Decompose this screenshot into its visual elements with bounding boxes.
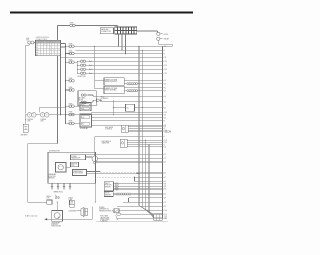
- svg-text:W1: W1: [36, 44, 38, 46]
- svg-text:105: 105: [164, 112, 167, 114]
- svg-text:29: 29: [164, 197, 166, 199]
- svg-text:21: 21: [164, 154, 166, 156]
- svg-text:44: 44: [164, 102, 166, 104]
- svg-text:9: 9: [164, 54, 165, 56]
- svg-text:FUSE: FUSE: [69, 121, 73, 123]
- svg-text:43: 43: [164, 46, 166, 48]
- svg-text:35: 35: [164, 206, 166, 208]
- svg-text:RLY: RLY: [82, 124, 85, 126]
- svg-text:34: 34: [164, 189, 166, 191]
- svg-text:11: 11: [164, 158, 166, 160]
- svg-text:IGN: IGN: [82, 105, 84, 107]
- svg-text:FUSE: FUSE: [69, 87, 73, 89]
- svg-text:ECCS: ECCS: [164, 34, 168, 36]
- svg-text:PRESSURE SWITCH: PRESSURE SWITCH: [99, 210, 113, 212]
- svg-text:49: 49: [164, 115, 166, 117]
- svg-text:4: 4: [164, 120, 165, 122]
- svg-text:FUSE: FUSE: [69, 78, 73, 80]
- svg-text:(FUEL PUMP): (FUEL PUMP): [100, 219, 110, 221]
- svg-text:41: 41: [164, 181, 166, 183]
- svg-text:20: 20: [164, 162, 166, 164]
- svg-text:FUSE: FUSE: [69, 59, 73, 61]
- svg-text:STEERING OIL: STEERING OIL: [99, 209, 109, 211]
- svg-text:No.1: No.1: [89, 61, 92, 63]
- svg-text:No.3: No.3: [89, 69, 92, 71]
- svg-text:POSITION: POSITION: [49, 176, 56, 178]
- svg-text:POSITION SEN: POSITION SEN: [73, 173, 83, 175]
- svg-text:47: 47: [164, 177, 166, 179]
- svg-text:CONDENSER: CONDENSER: [68, 211, 76, 213]
- svg-text:R: R: [49, 42, 50, 44]
- svg-text:F22: F22: [165, 216, 168, 218]
- svg-text:FUSE: FUSE: [70, 23, 74, 25]
- svg-text:SOLENOID: SOLENOID: [101, 98, 108, 100]
- svg-text:W2: W2: [36, 47, 38, 49]
- svg-text:T: T: [55, 42, 56, 44]
- svg-text:CONN.: CONN.: [68, 199, 73, 201]
- svg-text:45: 45: [164, 107, 166, 109]
- svg-text:SENSOR: SENSOR: [105, 186, 111, 188]
- svg-text:SENSOR (FRONT): SENSOR (FRONT): [105, 81, 118, 83]
- svg-text:1: 1: [164, 136, 165, 138]
- svg-text:W3: W3: [36, 49, 38, 51]
- svg-text:23: 23: [164, 194, 166, 196]
- svg-text:FICD: FICD: [101, 96, 104, 98]
- svg-text:101: 101: [164, 61, 167, 63]
- svg-text:POSITION: POSITION: [105, 185, 112, 187]
- svg-text:111: 111: [164, 214, 167, 216]
- svg-text:COIL: COIL: [71, 165, 74, 167]
- svg-text:POWER: POWER: [99, 207, 104, 209]
- svg-text:19: 19: [164, 202, 166, 204]
- svg-text:SENSOR: SENSOR: [105, 194, 111, 196]
- svg-text:W5: W5: [36, 55, 38, 57]
- svg-text:112: 112: [164, 73, 167, 75]
- svg-text:103: 103: [164, 69, 167, 71]
- svg-text:CONNECTOR: CONNECTOR: [101, 31, 112, 33]
- svg-text:115: 115: [164, 132, 167, 134]
- svg-text:S: S: [46, 42, 47, 44]
- svg-text:50: 50: [164, 80, 166, 82]
- svg-text:SENSOR (OBD): SENSOR (OBD): [51, 226, 61, 228]
- svg-text:104: 104: [164, 210, 167, 212]
- svg-text:SENSOR: SENSOR: [49, 178, 55, 180]
- svg-text:59: 59: [164, 117, 166, 119]
- svg-text:INJECTOR: INJECTOR: [78, 76, 87, 78]
- svg-text:4: 4: [164, 50, 165, 52]
- svg-text:IGNITION SWITCH: IGNITION SWITCH: [36, 37, 49, 39]
- svg-text:18: 18: [164, 57, 166, 59]
- svg-text:38: 38: [164, 184, 166, 186]
- svg-text:DISTRIBUTOR: DISTRIBUTOR: [49, 151, 61, 153]
- svg-text:39: 39: [164, 186, 166, 188]
- svg-text:10: 10: [164, 146, 166, 148]
- svg-text:2: 2: [164, 144, 165, 146]
- svg-text:56: 56: [164, 83, 166, 85]
- svg-text:51: 51: [164, 88, 166, 90]
- svg-text:30: 30: [164, 173, 166, 175]
- svg-text:B: B: [41, 42, 42, 44]
- svg-text:FUSE: FUSE: [69, 43, 73, 45]
- svg-text:No.4: No.4: [89, 73, 92, 75]
- svg-text:TOR: TOR: [47, 198, 50, 200]
- svg-text:No.2: No.2: [89, 65, 92, 67]
- svg-text:5: 5: [164, 128, 165, 130]
- svg-text:114: 114: [164, 142, 167, 144]
- svg-text:POWER: POWER: [71, 156, 76, 158]
- svg-text:THROT.: THROT.: [105, 183, 111, 185]
- svg-text:25: 25: [164, 126, 166, 128]
- svg-text:METER: METER: [55, 198, 60, 200]
- svg-text:W4: W4: [36, 52, 38, 54]
- svg-text:CONTROL: CONTROL: [105, 129, 112, 131]
- svg-text:LINK: LINK: [40, 120, 43, 122]
- svg-text:KNOCK: KNOCK: [105, 193, 110, 195]
- svg-text:40: 40: [164, 96, 166, 98]
- svg-text:FUSE: FUSE: [69, 103, 73, 105]
- svg-text:110: 110: [164, 65, 167, 67]
- svg-text:FUSE: FUSE: [69, 112, 73, 114]
- svg-text:LINK: LINK: [27, 120, 30, 122]
- svg-text:113: 113: [164, 140, 167, 142]
- svg-text:B1: B1: [165, 218, 167, 220]
- svg-text:57: 57: [164, 90, 166, 92]
- svg-text:FUSE: FUSE: [69, 51, 73, 53]
